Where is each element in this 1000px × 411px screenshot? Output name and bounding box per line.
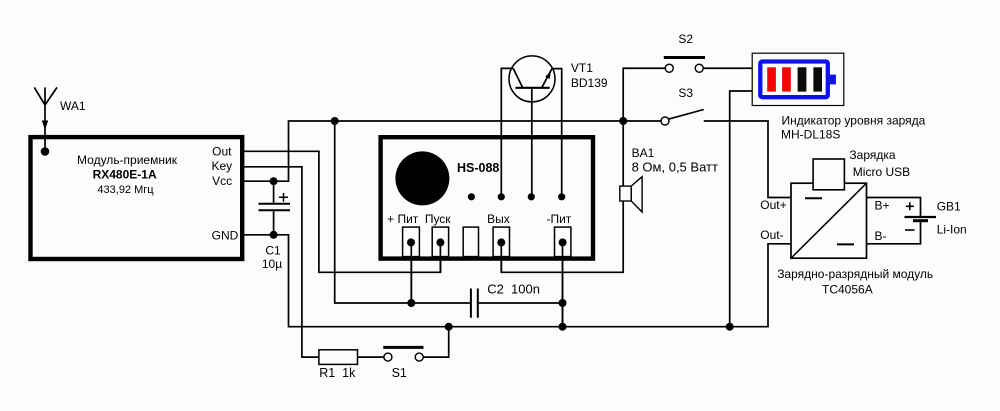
- svg-text:Зарядно-разрядный модуль: Зарядно-разрядный модуль: [777, 267, 933, 281]
- svg-text:VT1: VT1: [571, 61, 593, 75]
- svg-text:Vcc: Vcc: [212, 174, 232, 188]
- svg-text:Micro USB: Micro USB: [853, 165, 910, 179]
- svg-text:C1: C1: [265, 244, 281, 258]
- svg-text:S2: S2: [678, 32, 693, 46]
- svg-text:Li-Ion: Li-Ion: [937, 222, 967, 236]
- svg-text:433,92 Мгц: 433,92 Мгц: [97, 184, 154, 196]
- svg-text:S1: S1: [392, 366, 407, 380]
- svg-text:B-: B-: [875, 229, 887, 243]
- svg-text:RX480E-1A: RX480E-1A: [93, 168, 157, 182]
- svg-text:Зарядка: Зарядка: [849, 148, 895, 162]
- svg-text:8 Ом, 0,5 Ватт: 8 Ом, 0,5 Ватт: [632, 160, 718, 175]
- svg-text:BD139: BD139: [571, 76, 608, 90]
- svg-text:GND: GND: [212, 228, 239, 242]
- svg-text:BA1: BA1: [632, 146, 655, 160]
- svg-text:+ Пит: + Пит: [387, 212, 419, 226]
- svg-text:WA1: WA1: [60, 99, 86, 113]
- svg-text:MH-DL18S: MH-DL18S: [781, 127, 840, 141]
- svg-text:Key: Key: [212, 159, 233, 173]
- svg-text:Пуск: Пуск: [425, 212, 451, 226]
- svg-text:GB1: GB1: [937, 199, 961, 213]
- svg-text:HS-088: HS-088: [457, 161, 499, 175]
- svg-text:Модуль-приемник: Модуль-приемник: [77, 153, 178, 167]
- svg-text:TC4056A: TC4056A: [822, 282, 873, 296]
- svg-text:R1 1k: R1 1k: [319, 366, 356, 380]
- svg-text:Вых: Вых: [487, 212, 510, 226]
- svg-text:S3: S3: [678, 86, 693, 100]
- svg-text:Out-: Out-: [760, 228, 783, 242]
- svg-text:-Пит: -Пит: [546, 212, 571, 226]
- svg-text:C2 100n: C2 100n: [487, 282, 540, 297]
- svg-text:Out: Out: [212, 144, 232, 158]
- svg-text:Out+: Out+: [760, 198, 786, 212]
- svg-text:B+: B+: [875, 198, 890, 212]
- svg-text:Индикатор уровня заряда: Индикатор уровня заряда: [782, 113, 926, 127]
- svg-text:10µ: 10µ: [262, 257, 282, 271]
